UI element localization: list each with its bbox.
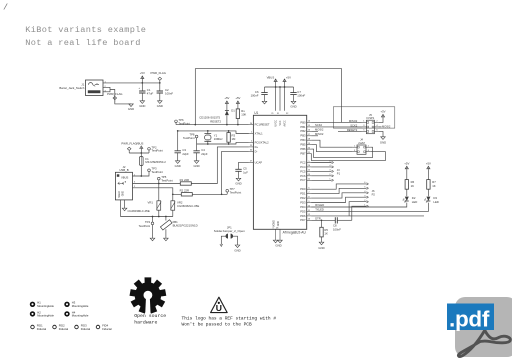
wire J1 pin1 to +5V rail xyxy=(103,82,160,84)
svg-text:Shield: Shield xyxy=(119,191,121,198)
MCU left pin stubs xyxy=(249,124,254,126)
ground GND under C5 xyxy=(236,178,241,181)
crystal Y1 16MHz xyxy=(207,130,209,132)
svg-text:PD0: PD0 xyxy=(300,187,306,191)
resistor R6 1K xyxy=(406,169,408,179)
junction reset loop xyxy=(194,124,196,126)
wire PD6 long stub xyxy=(311,215,424,217)
capacitor C4 22pF xyxy=(196,144,198,151)
svg-text:LED: LED xyxy=(433,200,438,204)
testpoint TP8 on XTAL2 xyxy=(195,135,198,138)
ground GND under R5 xyxy=(319,242,324,245)
connector J6 P2 pins xyxy=(311,184,366,189)
svg-text:GND: GND xyxy=(290,104,296,108)
junction VR1 bottom xyxy=(158,216,160,218)
resistor R7 1K xyxy=(427,169,429,179)
fiducial FID4 xyxy=(96,325,100,329)
testpoint TP5 on D+ xyxy=(158,177,161,180)
svg-text:This logo has a REF starting w: This logo has a REF starting with # xyxy=(182,315,277,321)
testpoint TP3 xyxy=(148,169,151,172)
svg-text:SCK2: SCK2 xyxy=(350,123,358,127)
svg-text:+5V: +5V xyxy=(224,96,229,100)
logo warning triangle with U xyxy=(211,297,228,312)
svg-text:VBUS: VBUS xyxy=(136,141,144,145)
svg-text:MountingHole: MountingHole xyxy=(72,304,89,308)
junction VR2 tap on D- xyxy=(172,193,174,195)
svg-text:TestPoint: TestPoint xyxy=(161,178,173,182)
wire PB0 to ICSP pin1 xyxy=(311,121,362,123)
wire PD5 TXLED to D3 xyxy=(311,203,428,212)
svg-text:Not a real life board: Not a real life board xyxy=(25,38,140,48)
junction crystal top-left xyxy=(177,130,179,132)
svg-text:UCAP: UCAP xyxy=(255,160,263,164)
junction TP4 tap xyxy=(152,216,154,218)
svg-text:TestPoint: TestPoint xyxy=(183,136,195,140)
ground GND under JP1 xyxy=(235,245,240,248)
svg-text:PD6: PD6 xyxy=(300,214,306,218)
svg-text:PD1: PD1 xyxy=(300,192,306,196)
varistor VR2 CG0603MLC-05E xyxy=(172,194,174,201)
wire JP1 pin2 to ground xyxy=(233,236,238,245)
svg-text:MountingHole: MountingHole xyxy=(72,314,89,318)
svg-text:22pF: 22pF xyxy=(182,152,189,156)
svg-text:1K: 1K xyxy=(432,184,436,188)
svg-text:MountingHole: MountingHole xyxy=(37,314,54,318)
svg-text:DTR: DTR xyxy=(315,217,321,221)
svg-text:+5V: +5V xyxy=(426,161,431,165)
svg-text:1K: 1K xyxy=(411,184,415,188)
svg-text:GND: GND xyxy=(157,104,163,108)
svg-text:MF-MSMF050-2: MF-MSMF050-2 xyxy=(145,160,166,164)
svg-text:MountingHole: MountingHole xyxy=(37,304,54,308)
svg-text:/: / xyxy=(3,3,8,13)
wire decoupling rail xyxy=(265,86,294,88)
svg-text:GND: GND xyxy=(128,107,134,111)
svg-text:TestPoint: TestPoint xyxy=(151,149,163,153)
wire +5V stem xyxy=(141,79,143,83)
svg-text:TestPoint: TestPoint xyxy=(230,190,242,194)
ground GND under TP4 xyxy=(150,238,155,241)
ground GND at ICSP pin6 xyxy=(379,131,383,136)
ground symbol GND at J1 xyxy=(129,104,134,107)
svg-text:+5V: +5V xyxy=(380,110,385,114)
svg-text:GND: GND xyxy=(175,164,181,168)
ground GND under C4 xyxy=(194,161,199,164)
svg-text:U: U xyxy=(216,303,222,313)
svg-text:PC6: PC6 xyxy=(300,174,306,178)
wire shield ground bus xyxy=(121,200,173,217)
svg-text:GND: GND xyxy=(278,221,280,226)
power flag PWR_FLAG on J1 ground xyxy=(113,96,117,102)
svg-text:PD3: PD3 xyxy=(300,200,306,204)
svg-text:R1 22R: R1 22R xyxy=(180,178,189,182)
svg-text:Won't be passed to the PCB: Won't be passed to the PCB xyxy=(182,321,253,327)
connector J4 2x2M xyxy=(357,145,366,154)
connector J5 ICSP1 xyxy=(366,120,374,134)
svg-text:PB1: PB1 xyxy=(300,125,306,129)
svg-text:22pF: 22pF xyxy=(201,152,208,156)
svg-text:Fiducial: Fiducial xyxy=(59,327,69,331)
label MOSI2 at ICSP pin4 xyxy=(379,126,382,128)
svg-text:GND: GND xyxy=(318,246,324,250)
svg-text:PC1/RESET: PC1/RESET xyxy=(255,123,270,127)
svg-text:PC0/XTAL2: PC0/XTAL2 xyxy=(255,140,269,144)
pdf file icon xyxy=(447,297,512,357)
svg-text:PWR_FLAG: PWR_FLAG xyxy=(107,92,122,96)
power symbol +5V above R7 xyxy=(427,166,430,169)
ferrite bead FB1 BLM21PG221SN1D xyxy=(165,217,167,221)
IC U1 ATmega8U2-AU body xyxy=(253,115,306,229)
svg-text:+5V: +5V xyxy=(140,71,145,75)
power symbol +5V above R6 xyxy=(405,166,408,169)
svg-text:PB7: PB7 xyxy=(300,152,306,156)
svg-text:2x2M: 2x2M xyxy=(358,141,365,145)
svg-text:100nF: 100nF xyxy=(333,227,341,231)
wire PB6 to J4 pin2 xyxy=(311,147,372,157)
svg-text:MISO2: MISO2 xyxy=(349,119,358,123)
junction Rs on reset xyxy=(237,124,239,126)
LED D3 xyxy=(426,197,430,201)
svg-text:MISO2: MISO2 xyxy=(315,132,324,136)
svg-text:PB2: PB2 xyxy=(300,129,306,133)
wire XTAL1 net xyxy=(178,131,249,134)
mounting hole H2 xyxy=(30,311,35,316)
svg-text:KiBot variants example: KiBot variants example xyxy=(25,25,146,35)
MCU bottom pins UGND GND xyxy=(275,229,277,240)
resistor R2 22R xyxy=(181,193,192,196)
capacitor C6 100nF xyxy=(264,87,266,93)
svg-text:LED: LED xyxy=(412,200,417,204)
ground GND under MCU ugnd xyxy=(273,240,278,243)
svg-text:BLM21PG221SN1D: BLM21PG221SN1D xyxy=(173,224,198,228)
junction on +5V rail xyxy=(141,82,143,84)
svg-text:Open source: Open source xyxy=(134,313,166,319)
svg-text:PWR_FLAG: PWR_FLAG xyxy=(121,141,136,145)
logo open source hardware gear xyxy=(130,277,167,314)
svg-text:100nF: 100nF xyxy=(251,94,259,98)
wire RESET2 net xyxy=(176,124,249,126)
LED D2 xyxy=(405,197,409,201)
svg-text:ATmega8U2-AU: ATmega8U2-AU xyxy=(283,230,307,234)
power flag PWR_FLAG on +5V rail xyxy=(158,77,162,83)
svg-text:D1: D1 xyxy=(231,109,235,113)
svg-text:1uF: 1uF xyxy=(243,170,248,174)
capacitor C1 47uF xyxy=(141,83,143,91)
svg-text:CG0603MLC-05E: CG0603MLC-05E xyxy=(128,209,150,213)
graphic box around ICSP section xyxy=(333,107,395,128)
wire PD4 RXLED to D2 xyxy=(311,203,407,207)
svg-text:J6: J6 xyxy=(372,189,375,193)
svg-text:PC2: PC2 xyxy=(300,160,306,164)
wire XTAL2 net xyxy=(197,142,249,144)
resistor Rs 10K pullup xyxy=(236,101,239,104)
svg-text:PD5: PD5 xyxy=(300,209,306,213)
wire R1 to MCU D+ xyxy=(191,147,249,184)
wire R2 to MCU D- xyxy=(192,193,227,195)
wire PB7 to J4 pin4 xyxy=(311,152,385,161)
testpoint TP6 on reset xyxy=(175,120,178,123)
label MOSI2 on PB2 stub xyxy=(311,130,318,132)
svg-text:SCK2: SCK2 xyxy=(315,123,323,127)
svg-text:16MHz: 16MHz xyxy=(214,137,223,141)
diode D1 CD1206-S01575 xyxy=(226,104,228,110)
resistor R5 1K xyxy=(321,220,323,227)
svg-text:MOSI2: MOSI2 xyxy=(315,128,324,132)
svg-text:Fiducial: Fiducial xyxy=(102,327,112,331)
svg-text:VBUS: VBUS xyxy=(121,175,129,179)
testpoint TP7 on D- xyxy=(226,189,229,192)
svg-text:RXLED: RXLED xyxy=(315,203,324,207)
varistor VR1 CG0603MLC-05E xyxy=(158,184,160,201)
capacitor C2 100nF xyxy=(159,83,161,91)
svg-text:10K: 10K xyxy=(241,113,246,117)
svg-text:PD4: PD4 xyxy=(300,205,306,209)
svg-text:47uF: 47uF xyxy=(147,91,154,95)
svg-text:GND: GND xyxy=(380,141,386,145)
junction VR1 tap on D+ xyxy=(158,183,160,185)
svg-text:D+: D+ xyxy=(255,145,259,149)
svg-text:+5V: +5V xyxy=(286,76,291,80)
ground GND under MCU gnd xyxy=(278,240,283,243)
ground GND at J2 gnd pin xyxy=(124,200,126,208)
svg-text:J3: J3 xyxy=(337,168,340,172)
svg-text:PD7: PD7 xyxy=(300,218,306,222)
junction VBUS xyxy=(140,152,142,154)
junction at F1 bottom xyxy=(140,175,142,177)
svg-text:UGND: UGND xyxy=(274,220,276,227)
svg-text:TestPoint: TestPoint xyxy=(151,170,163,174)
testpoint TP2 xyxy=(148,148,151,151)
capacitor C7 100nF xyxy=(293,87,295,93)
wire VCC branch xyxy=(279,87,281,111)
power symbol +5V at input rail xyxy=(141,76,144,79)
power symbol VBUS arrow xyxy=(140,146,143,149)
ground GND under C3 xyxy=(175,161,180,164)
wire VBUS rail xyxy=(129,152,149,154)
svg-text:R2 22R: R2 22R xyxy=(180,189,189,193)
svg-text:GND: GND xyxy=(275,244,281,248)
svg-text:GND: GND xyxy=(193,164,199,168)
junction DTR at R5 xyxy=(321,219,323,221)
svg-text:PB5: PB5 xyxy=(300,143,306,147)
wire PB4 to J4 pin1 xyxy=(311,140,353,147)
svg-text:1M: 1M xyxy=(232,137,237,141)
ground GND under C1 xyxy=(140,101,145,104)
svg-text:Fiducial: Fiducial xyxy=(37,327,47,331)
svg-text:Fiducial: Fiducial xyxy=(81,327,91,331)
mounting hole H3 xyxy=(64,302,69,307)
svg-text:GND: GND xyxy=(234,249,240,253)
wire reset loop to ICSP row xyxy=(195,69,341,125)
svg-text:P2: P2 xyxy=(372,193,376,197)
fiducial FID1 xyxy=(31,325,35,329)
svg-text:VBUS: VBUS xyxy=(267,76,275,80)
svg-text:PWR_FLAG: PWR_FLAG xyxy=(151,71,166,75)
wire J2 D+ to R1 xyxy=(133,183,181,185)
svg-text:.pdf: .pdf xyxy=(449,306,490,331)
svg-text:UVCC: UVCC xyxy=(275,120,277,127)
wire PB1 SCK2 to ICSP pin3 xyxy=(311,126,362,128)
svg-text:+5V: +5V xyxy=(404,161,409,165)
junction FB1 tap xyxy=(165,216,167,218)
svg-text:VR1: VR1 xyxy=(148,200,154,204)
junction at R2 net xyxy=(221,193,223,195)
fiducial FID3 xyxy=(75,325,79,329)
connector J1 Barrel_Jack_Switch xyxy=(86,80,104,96)
junction D1 on reset xyxy=(226,124,228,126)
svg-text:100nF: 100nF xyxy=(165,91,173,95)
svg-text:D-: D- xyxy=(255,149,258,153)
resistor R1 22R xyxy=(180,182,191,185)
wire +5V stem to AVCC xyxy=(284,82,286,111)
label MISO2 on PB3 stub xyxy=(311,135,318,137)
wire to GND from J1 xyxy=(110,90,131,104)
svg-text:PB3: PB3 xyxy=(300,134,306,138)
svg-text:PC4: PC4 xyxy=(300,165,306,169)
resistor R3 1M xyxy=(228,130,230,132)
power symbol +5V above D1 xyxy=(225,101,228,104)
capacitor C8 100nF xyxy=(335,217,337,223)
svg-text:P1: P1 xyxy=(337,172,341,176)
svg-text:VCC: VCC xyxy=(280,120,282,125)
svg-text:AVCC: AVCC xyxy=(283,120,286,127)
svg-text:+5V: +5V xyxy=(235,96,240,100)
svg-text:PC5: PC5 xyxy=(300,169,306,173)
power flag PWR_FLAG on VBUS xyxy=(127,147,131,153)
wire PB5 to J4 pin3 xyxy=(311,145,353,152)
svg-text:SolderJumper_2_Open: SolderJumper_2_Open xyxy=(214,229,245,233)
svg-text:PB4: PB4 xyxy=(300,138,306,142)
svg-text:GND: GND xyxy=(235,182,241,186)
connector J3 P1 pins xyxy=(311,162,332,164)
wire F1 to J2 VBUS pin xyxy=(133,166,142,177)
svg-text:Barrel_Jack_Switch: Barrel_Jack_Switch xyxy=(59,86,84,90)
fiducial FID2 xyxy=(53,325,57,329)
capacitor C5 1uF on UCAP xyxy=(239,162,249,169)
svg-text:PB6: PB6 xyxy=(300,147,306,151)
ground GND under C7 xyxy=(291,101,296,104)
ground GND under C6 xyxy=(262,101,267,104)
svg-text:RESET2: RESET2 xyxy=(210,120,221,124)
power symbol VBUS at MCU xyxy=(274,79,277,82)
power symbol +5V at MCU xyxy=(283,79,286,82)
fuse F1 MF-MSMF050-2 xyxy=(140,157,144,166)
svg-text:GND: GND xyxy=(139,104,145,108)
svg-text:PD2: PD2 xyxy=(300,196,306,200)
testpoint TP4 xyxy=(151,222,154,225)
svg-text:100nF: 100nF xyxy=(297,94,305,98)
ground GND under FB1 xyxy=(164,238,169,241)
svg-text:1K: 1K xyxy=(324,232,328,236)
wire J2 D- jog to R2 xyxy=(133,188,182,195)
svg-text:PC7: PC7 xyxy=(300,178,306,182)
svg-text:ICSP1: ICSP1 xyxy=(367,116,375,120)
svg-text:PB0: PB0 xyxy=(300,120,306,124)
svg-text:hardware: hardware xyxy=(134,319,157,325)
svg-text:XTAL1: XTAL1 xyxy=(255,131,264,135)
ground GND under C2 xyxy=(158,101,163,104)
wire PD7 DTR to R5 and C8 xyxy=(311,219,335,221)
svg-text:MOSI2: MOSI2 xyxy=(382,125,391,129)
mounting hole H1 xyxy=(30,302,35,307)
capacitor C3 22pF xyxy=(177,131,179,151)
svg-text:USB_B: USB_B xyxy=(119,168,128,172)
svg-text:CG0603MLC-05E: CG0603MLC-05E xyxy=(177,204,199,208)
svg-text:U1: U1 xyxy=(254,111,258,115)
wire J1 pins 2-3 join xyxy=(103,87,110,92)
connector J2 USB_B xyxy=(115,172,132,200)
svg-text:GND: GND xyxy=(123,191,125,196)
MCU right pin stubs xyxy=(307,121,311,123)
power symbol +5V at ICSP pin2 xyxy=(379,117,383,122)
wire VBUS stem to UVCC xyxy=(275,82,277,111)
junction at C2 tap xyxy=(159,82,161,84)
svg-text:TXLED: TXLED xyxy=(315,208,324,212)
mounting hole H4 xyxy=(64,311,69,316)
wire JP1 pin1 open end xyxy=(221,236,225,244)
svg-text:TestPoint: TestPoint xyxy=(139,224,151,228)
